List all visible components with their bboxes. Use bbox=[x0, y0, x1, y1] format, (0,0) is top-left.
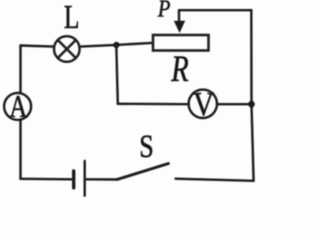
lamp cross stroke 1 bbox=[58, 40, 76, 58]
ammeter A circle bbox=[4, 93, 31, 120]
wire ammeter to bottom corner bbox=[19, 120, 21, 179]
wire junction down to voltmeter branch bbox=[116, 45, 118, 104]
wire right vertical bbox=[251, 10, 253, 181]
voltmeter V circle bbox=[189, 90, 217, 118]
wire top-right horizontal bbox=[179, 9, 252, 11]
switch S lever bbox=[117, 164, 169, 180]
rheostat slider arrowhead bbox=[175, 21, 185, 32]
junction dot at right wire / voltmeter node bbox=[248, 101, 255, 108]
wire voltmeter branch horizontal left bbox=[118, 103, 189, 106]
rheostat R body bbox=[153, 35, 209, 51]
wire junction to rheostat left lead bbox=[116, 43, 152, 45]
svg-text:V: V bbox=[193, 85, 214, 123]
svg-text:R: R bbox=[170, 50, 188, 90]
wire voltmeter to right vertical bbox=[218, 103, 252, 105]
svg-text:A: A bbox=[9, 89, 27, 125]
lamp L1 circle bbox=[54, 36, 80, 62]
rheostat slider vertical wire bbox=[178, 10, 180, 24]
lamp cross stroke 2 bbox=[58, 40, 76, 58]
wire switch right contact to bottom corner bbox=[176, 179, 254, 181]
wire bottom left horizontal to battery bbox=[21, 178, 72, 181]
wire left vertical (top corner to ammeter) bbox=[19, 46, 21, 93]
svg-text:L: L bbox=[64, 0, 80, 36]
junction dot at lamp/rheostat node bbox=[113, 42, 119, 48]
svg-text:S: S bbox=[139, 129, 153, 164]
battery positive plate (long) bbox=[83, 161, 85, 196]
wire battery to switch pivot bbox=[87, 178, 118, 181]
svg-text:P: P bbox=[157, 0, 171, 22]
wire top-left horizontal (corner to lamp) bbox=[21, 46, 54, 47]
wire lamp to junction bbox=[81, 45, 116, 47]
battery negative plate (short) bbox=[72, 171, 75, 188]
